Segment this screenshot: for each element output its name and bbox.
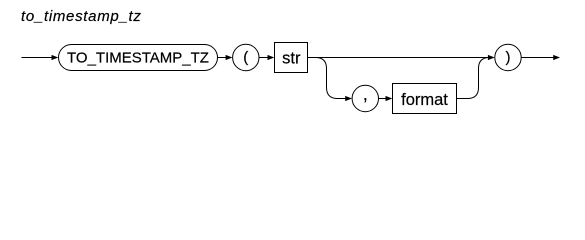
wire: ( to str (259, 57, 268, 59)
svg-text:to_timestamp_tz: to_timestamp_tz (21, 8, 142, 25)
svg-text:format: format (401, 91, 448, 109)
arrowhead into , (345, 96, 352, 101)
terminal ( circle (233, 44, 259, 70)
arrowhead into ( (226, 55, 233, 60)
svg-text:,: , (363, 84, 368, 104)
nonterminal format box (393, 84, 457, 114)
arrowhead end (553, 55, 560, 60)
arrowhead into format (386, 96, 393, 101)
arrowhead into str (268, 55, 275, 60)
svg-text:): ) (506, 49, 511, 66)
terminal ) circle (495, 44, 521, 70)
svg-text:str: str (282, 50, 301, 68)
arrowhead into TO_TIMESTAMP_TZ (52, 55, 59, 60)
wire: main rail from str to ) (308, 57, 489, 59)
terminal , circle (352, 85, 378, 111)
wire: branch down to optional format row (316, 58, 346, 99)
wire: start line (22, 57, 53, 59)
nonterminal str box (275, 43, 308, 73)
keyword TO_TIMESTAMP_TZ stadium (59, 45, 218, 71)
wire: , to format (379, 98, 387, 100)
svg-text:TO_TIMESTAMP_TZ: TO_TIMESTAMP_TZ (67, 49, 209, 66)
wire: stadium to ( (218, 57, 227, 59)
wire: final line (521, 57, 553, 59)
svg-text:(: ( (243, 49, 248, 66)
wire: format back up to main rail (457, 58, 490, 99)
arrowhead into ) (488, 55, 495, 60)
